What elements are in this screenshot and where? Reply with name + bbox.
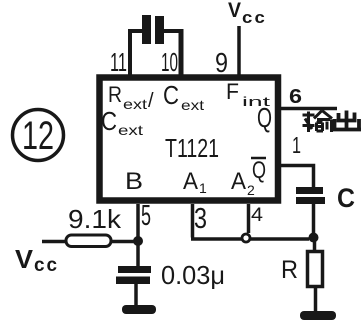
capacitor Cext (between pins 11 and 10) bbox=[142, 15, 164, 44]
resistor 9.1k bbox=[66, 235, 111, 247]
wire pin 4 down bbox=[247, 204, 251, 233]
U1 label A2 bbox=[231, 168, 255, 198]
wire node to resistor R bbox=[313, 238, 317, 252]
svg-text:R: R bbox=[108, 82, 122, 107]
svg-text:A: A bbox=[231, 168, 246, 195]
svg-text:6: 6 bbox=[289, 86, 302, 108]
Vcc power label (bottom left) bbox=[15, 244, 59, 276]
svg-text:10: 10 bbox=[161, 47, 178, 77]
node junction pin 5 bbox=[133, 236, 143, 246]
svg-text:1: 1 bbox=[292, 132, 301, 158]
U1 label Qbar (pin 1) bbox=[251, 157, 266, 184]
wire pin 11 up to external capacitor bbox=[128, 31, 132, 75]
wire pin 5 down through node to capacitor bbox=[136, 204, 140, 266]
svg-text:B: B bbox=[125, 168, 143, 195]
open junction pin 4 bbox=[242, 234, 250, 242]
svg-text:11: 11 bbox=[110, 47, 127, 77]
svg-text:C: C bbox=[101, 106, 117, 136]
svg-text:5: 5 bbox=[141, 200, 151, 232]
wire down to pin 10 bbox=[179, 29, 184, 75]
wire Vcc lead to resistor 9.1k bbox=[42, 240, 66, 244]
svg-text:ext: ext bbox=[118, 122, 143, 138]
U1 label Cext (second line) bbox=[101, 106, 143, 138]
wire pin 6 output bbox=[280, 107, 337, 111]
svg-text:C: C bbox=[163, 80, 179, 110]
svg-text:12: 12 bbox=[22, 114, 54, 158]
svg-text:9: 9 bbox=[215, 47, 228, 78]
svg-text:9.1k: 9.1k bbox=[68, 204, 122, 234]
node junction (C, R, A-wire) bbox=[309, 233, 319, 243]
svg-text:C: C bbox=[337, 183, 355, 213]
svg-text:cc: cc bbox=[242, 8, 267, 27]
capacitor C bbox=[296, 187, 325, 204]
ground (right) bbox=[300, 311, 336, 320]
svg-text:Q: Q bbox=[252, 157, 266, 184]
ground (left) bbox=[122, 305, 156, 314]
wire pin 3 down and right bbox=[191, 204, 309, 239]
svg-text:/: / bbox=[148, 90, 154, 112]
Vcc power label (top) bbox=[228, 0, 267, 27]
resistor R bbox=[308, 252, 323, 287]
wire capacitor left lead bbox=[128, 29, 142, 33]
svg-text:cc: cc bbox=[34, 255, 59, 276]
svg-text:3: 3 bbox=[194, 203, 207, 235]
output net label (Chinese: shu) bbox=[303, 111, 333, 133]
svg-text:2: 2 bbox=[247, 182, 255, 198]
figure number 12 bbox=[13, 110, 64, 161]
U1 label Rext/Cext bbox=[108, 80, 204, 113]
wire resistor to node 5 bbox=[111, 240, 136, 244]
svg-text:0.03μ: 0.03μ bbox=[161, 260, 225, 290]
IC U1 T1121 outline bbox=[100, 78, 279, 201]
capacitor 0.03u bbox=[116, 266, 151, 284]
svg-text:F: F bbox=[226, 79, 239, 104]
wire pin 1 (Qbar) bbox=[280, 166, 314, 189]
svg-text:A: A bbox=[183, 168, 198, 195]
wire capacitor right lead bbox=[164, 29, 181, 33]
svg-text:ext: ext bbox=[123, 96, 147, 112]
svg-text:Q: Q bbox=[257, 102, 272, 133]
output net label (Chinese: chu) bbox=[333, 111, 362, 130]
U1 label A1 bbox=[183, 168, 207, 196]
svg-text:V: V bbox=[15, 244, 34, 274]
U1 label Fint bbox=[226, 79, 271, 109]
svg-text:4: 4 bbox=[251, 205, 263, 226]
wire Vcc to pin 9 bbox=[237, 26, 241, 75]
svg-text:R: R bbox=[281, 256, 298, 284]
wire R to ground bbox=[314, 286, 318, 312]
wire C to node bbox=[312, 204, 316, 238]
svg-text:V: V bbox=[228, 0, 241, 22]
svg-text:ext: ext bbox=[181, 97, 204, 113]
svg-text:1: 1 bbox=[199, 180, 207, 196]
wire capacitor to ground bbox=[134, 284, 138, 306]
svg-text:T1121: T1121 bbox=[165, 133, 219, 163]
